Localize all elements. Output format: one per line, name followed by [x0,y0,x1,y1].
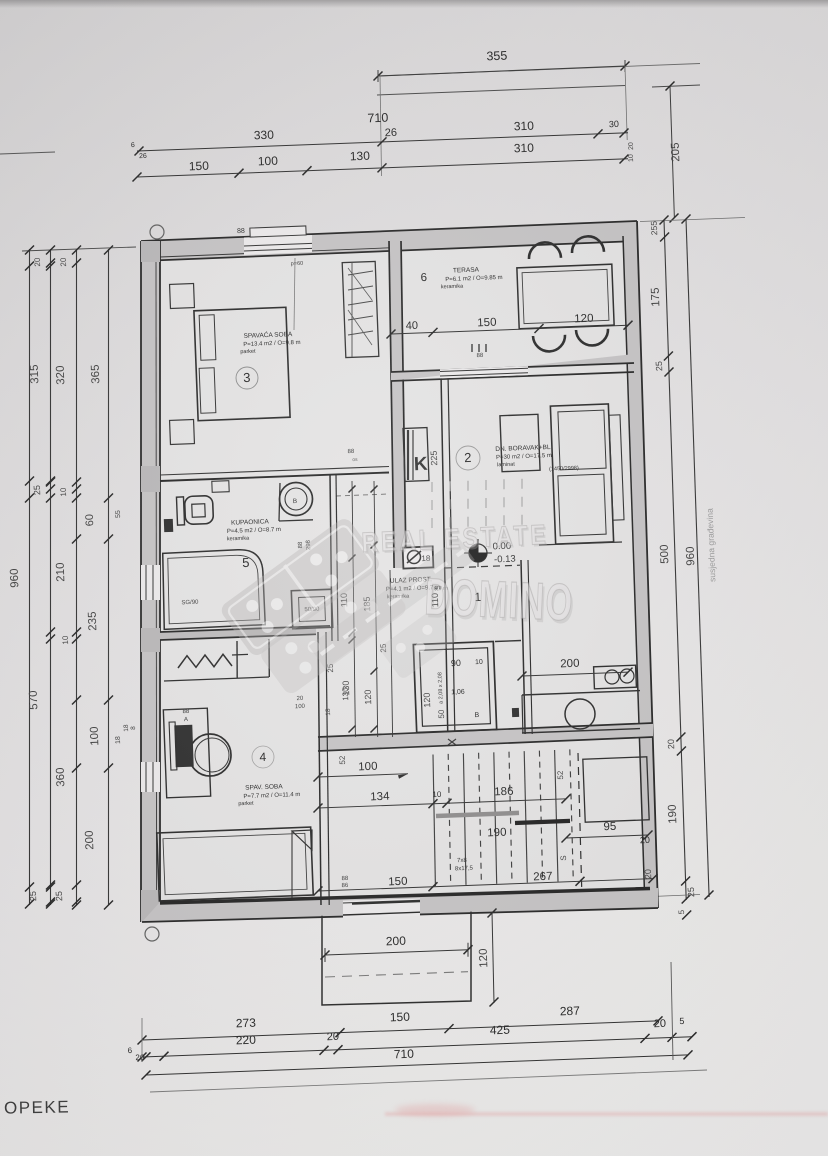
left chain ticks L1-L2 [25,262,34,271]
room 4 bed fold corner [292,830,312,850]
window in left wall (room 4) [141,762,160,792]
dim 134-10-186 [318,799,566,808]
right dim chain line R2 [686,219,709,897]
extension verticals bottom chain [141,1018,143,1062]
right dim chain line R1 [664,220,686,900]
toilet [176,497,184,525]
terrace table [517,264,614,329]
top wall second inner line [160,248,389,257]
room 4 chair (circle) [189,734,231,776]
outer wall top (with poche) [141,221,637,261]
room 4 bed [157,827,313,901]
dim 120 steps vertical [492,912,494,1003]
wall vestibule to kitchen [495,641,521,642]
watermark text DOMINO shadow [423,568,576,635]
shelf above toilet [212,481,229,493]
left chain top tick line [22,247,136,251]
pink smudge bottom [395,1104,475,1116]
steps dashed line [325,972,468,977]
kitchen K unit [403,428,429,482]
svg-text:DOMINO: DOMINO [423,568,574,632]
elevation marker 0.00 [469,544,487,562]
room 4 chair back (dark) [174,725,193,768]
building interior floor [141,221,658,922]
dark mark on left wall below toilet [164,519,173,532]
OPEKE caption [4,1097,70,1118]
dim 200 kitchen [522,672,628,676]
wall room4 right / stairs left (vertical) [318,632,321,905]
dark dot near vestibule [512,708,519,717]
left wall dark junction blocks [141,241,160,262]
dim 200 steps [325,950,468,955]
outer wall right (with poche) [623,221,658,909]
corridor dim chain V3 [390,570,393,737]
bottom dim chain 710 [146,1055,688,1075]
right chain ticks [660,233,669,242]
dark scan edge top [0,0,828,8]
left wall second inner line [155,262,158,900]
terrace door opening [440,366,528,378]
boiler circle [565,699,595,729]
left chain ticks L2-L3 [46,259,55,268]
dim chain 150-100-130-310 [137,159,628,177]
wall room3/bath (horizontal) [160,473,389,482]
threshold dashes hall [445,565,520,568]
room 2 sofa side [609,415,624,520]
bottom dim chain 220-20-425-20-5 [142,1037,692,1057]
terrace chairs (arcs) [529,242,561,259]
chimney box with vent symbol [403,546,434,568]
outer wall bottom (with poche) [142,888,658,922]
stair landing thick line dark part [515,821,570,823]
pantry rect right [583,757,649,822]
wall right of vestibule [521,560,525,734]
wall bath right (vertical) [330,474,332,641]
bottom dim chain 273-150-287 [142,1021,658,1040]
main door opening bottom wall [343,898,420,918]
terrace dim 40-150-120 [391,325,628,334]
parallel construction line below 355 [377,86,625,96]
terrace bottom wall [391,354,634,381]
bathtub [163,550,266,630]
room 3 nightstand lower [170,420,195,445]
watermark text REAL ESTATE shadow [361,520,551,561]
watermark domino tile second [258,566,409,697]
x mark wall junction [448,739,456,745]
dim 150-267 bottom stairs [318,879,653,891]
window W1 in top wall (room 3 balcony door) [244,235,312,255]
room 3 nightstand upper [170,284,195,309]
stair dashed walk line [578,753,582,888]
survey circle bottom-left corner [145,927,159,941]
dim line 355 (top) [378,64,700,77]
room 2 coffee table line [539,542,622,545]
watermark road band [309,537,475,668]
dim 100 with arrow [318,774,408,777]
corridor dim chain V1 [352,481,355,737]
kitchen counter lines right [522,691,640,695]
radiator zigzag niche [178,654,232,668]
left chain ticks L3-L4 [72,494,81,503]
watermark domino logo tiles [218,516,382,659]
washing machine 50/90 [291,589,332,629]
door threshold step [352,901,420,904]
extension line 355 left end down [380,76,382,176]
stair landing thick line gray part [436,813,519,816]
kitchen sink unit 100 [594,665,637,689]
corridor dim chain V2 [374,481,378,737]
window in left wall (bath) [141,565,160,600]
wall room2 left (vertical) [441,374,448,735]
room 3 bed [194,307,290,420]
wall room4/stairs horizontal [318,723,653,751]
right top dim 205 vertical [652,85,700,87]
room 4 desk [163,708,210,798]
central wall room3/terrace (vertical) [389,241,406,568]
bath sink round [280,483,313,516]
wall bath bottom [160,626,316,640]
room 2 parquet dashes [431,482,433,492]
extension line from 355 right end down [625,66,627,140]
plot boundary line bottom [150,1070,707,1092]
terrace window hatch marks [471,344,473,352]
room 3 wardrobe [342,261,379,357]
entrance steps rect [322,912,471,1005]
dim chain 330-26-310-30 [137,133,628,151]
outer wall left (with poche) [141,241,160,922]
curtain line below window W1 [294,258,295,330]
bath door dashed swing [336,494,388,496]
watermark small tile right [379,607,459,681]
dim 95 right [566,835,648,838]
vestibule walls (windfang) [413,641,496,732]
radiator niche lines [236,641,238,678]
right chain top tick line [640,218,745,222]
room 2 sofa [550,404,613,544]
stair riser lines [433,755,435,887]
room 2 cupboard [500,414,540,471]
survey circle top-left corner [150,225,164,239]
left stub of dim chain at page edge [0,152,55,154]
left dim chain lines L1-L4 [29,249,31,905]
